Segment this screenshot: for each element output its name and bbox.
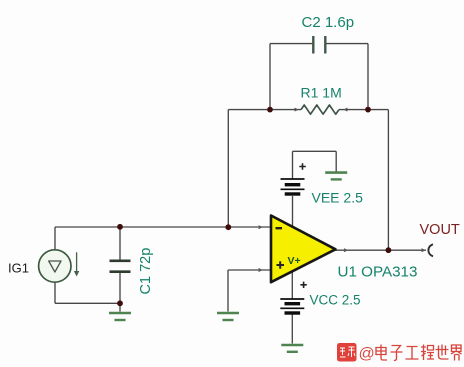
svg-text:V+: V+ (288, 255, 301, 267)
svg-text:C2 1.6p: C2 1.6p (302, 14, 355, 31)
svg-text:C1 72p: C1 72p (138, 248, 154, 295)
svg-text:VOUT: VOUT (420, 222, 460, 238)
svg-text:VCC 2.5: VCC 2.5 (310, 292, 361, 307)
svg-text:R1 1M: R1 1M (301, 85, 342, 101)
svg-text:U1 OPA313: U1 OPA313 (338, 264, 418, 281)
svg-text:VEE 2.5: VEE 2.5 (312, 189, 364, 205)
svg-text:@: @ (359, 346, 375, 363)
svg-text:IG1: IG1 (8, 261, 29, 276)
